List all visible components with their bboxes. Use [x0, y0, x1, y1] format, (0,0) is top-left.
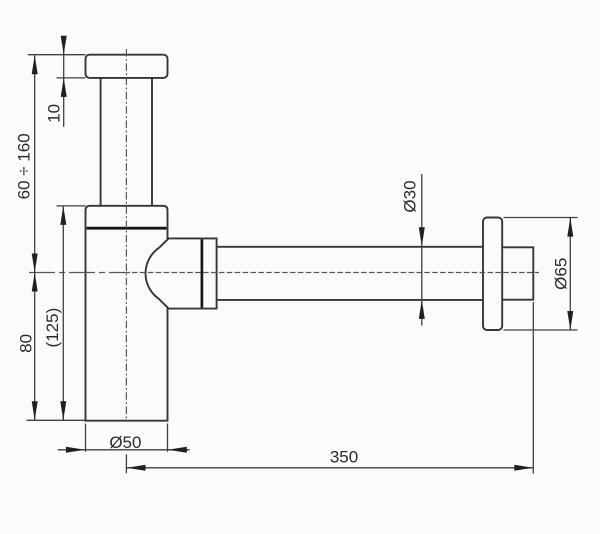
- extension line diam50 left: [85, 424, 87, 452]
- arrow diam30 top: [419, 227, 425, 246]
- dimension line 10: [63, 37, 65, 128]
- arrow diam50 left: [66, 447, 85, 453]
- svg-text:10: 10: [45, 104, 64, 123]
- pipe end stub: [500, 247, 533, 299]
- cup nut thick seam: [87, 227, 167, 230]
- arrow diam50 right: [168, 447, 187, 453]
- horizontal centerline left segment: [29, 272, 130, 274]
- svg-text:60 ÷ 160: 60 ÷ 160: [14, 133, 33, 199]
- arrow 80 bottom: [32, 401, 38, 420]
- dimension line diam65: [569, 218, 571, 330]
- extension line cap top: [28, 54, 86, 56]
- arrow diam30 bottom: [419, 300, 425, 319]
- vertical centerline: [125, 49, 127, 421]
- dimension line 350: [127, 467, 534, 469]
- arrow diam65 top: [567, 218, 573, 237]
- svg-text:80: 80: [17, 334, 36, 353]
- dimension line diam50: [58, 449, 190, 451]
- wall flange rosette: [483, 218, 502, 331]
- horizontal centerline right segment: [132, 272, 539, 274]
- dimension line 60-160 and 80: [34, 55, 36, 420]
- dimension line diam30: [421, 174, 423, 326]
- outlet elbow with union nut: [146, 238, 217, 308]
- arrow 350 left: [127, 465, 146, 471]
- extension line diam65 top: [504, 217, 578, 219]
- arrow 60-160 bottom: [32, 254, 38, 273]
- horizontal outlet pipe: [217, 246, 484, 248]
- vertical inlet pipe: [100, 76, 102, 206]
- top cap flange: [86, 55, 168, 78]
- extension line diam50 right: [167, 424, 169, 452]
- arrow (125) top: [60, 206, 66, 225]
- trap body cup: [86, 206, 168, 421]
- extension line cap bottom: [57, 77, 86, 79]
- svg-text:Ø50: Ø50: [109, 433, 141, 452]
- arrow 80 top: [32, 273, 38, 292]
- dimension line (125): [62, 206, 64, 420]
- arrow 10 lower: [61, 78, 67, 97]
- arrow (125) bottom: [60, 401, 66, 420]
- svg-text:Ø30: Ø30: [401, 180, 420, 212]
- extension line diam65 bottom: [504, 329, 578, 331]
- extension line cup top: [57, 205, 86, 207]
- extension line 350 left: [125, 454, 127, 473]
- svg-text:(125): (125): [43, 308, 62, 348]
- svg-text:350: 350: [330, 447, 358, 466]
- arrow 350 right: [514, 465, 533, 471]
- arrow 10 upper: [61, 36, 67, 55]
- extension line 350 right: [532, 302, 534, 474]
- svg-text:Ø65: Ø65: [552, 258, 571, 290]
- arrow 60-160 top: [32, 55, 38, 74]
- arrow diam65 bottom: [567, 311, 573, 330]
- nut thick seam: [201, 239, 204, 307]
- extension line cup bottom: [27, 419, 86, 421]
